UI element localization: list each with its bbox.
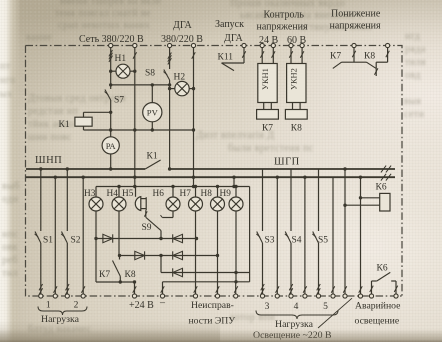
svg-text:–: – [159,298,166,309]
svg-text:S9: S9 [142,223,152,233]
svg-text:Н6: Н6 [153,189,165,199]
svg-text:Н3: Н3 [84,189,96,199]
svg-text:Н9: Н9 [220,189,232,199]
svg-text:Н1: Н1 [115,54,127,64]
svg-text:К8: К8 [291,124,302,134]
svg-text:К7: К7 [330,52,341,62]
svg-text:S4: S4 [292,236,302,246]
svg-text:Аварийное: Аварийное [355,301,400,312]
svg-text:1: 1 [46,301,51,311]
svg-text:S7: S7 [114,96,124,106]
svg-text:УКН2: УКН2 [290,68,299,90]
svg-text:ШНП: ШНП [35,155,62,166]
svg-text:ДГА: ДГА [173,20,193,31]
svg-text:2: 2 [74,301,79,311]
svg-text:Неисправ-: Неисправ- [191,300,234,311]
svg-text:Н2: Н2 [174,73,186,83]
svg-text:К6: К6 [377,264,388,274]
svg-text:напряжения: напряжения [257,22,309,33]
svg-text:+24 В: +24 В [129,300,154,311]
svg-text:К1: К1 [59,120,70,130]
svg-text:Н4: Н4 [107,189,119,199]
svg-text:3: 3 [265,302,270,312]
svg-text:Н5: Н5 [122,189,134,199]
svg-text:Контроль: Контроль [264,10,305,21]
svg-text:К8: К8 [125,270,136,280]
svg-text:Запуск: Запуск [215,19,244,30]
svg-text:S2: S2 [71,236,81,246]
svg-text:4: 4 [294,302,299,312]
svg-text:освещение: освещение [355,316,400,327]
svg-text:К1: К1 [147,152,158,162]
svg-text:Н8: Н8 [201,189,213,199]
svg-text:К6: К6 [376,183,387,193]
svg-text:S1: S1 [43,236,53,246]
svg-text:РА: РА [106,141,117,151]
svg-text:Н7: Н7 [180,189,192,199]
svg-text:напряжения: напряжения [330,21,382,32]
svg-text:S8: S8 [145,69,155,79]
svg-text:К11: К11 [218,53,234,63]
svg-text:К7: К7 [262,124,273,134]
svg-text:PV: PV [147,108,159,118]
svg-text:К8: К8 [364,52,375,62]
svg-text:УКН1: УКН1 [261,68,270,90]
svg-text:S3: S3 [265,236,275,246]
svg-text:К7: К7 [99,270,110,280]
svg-text:Понижение: Понижение [331,9,381,20]
svg-text:380/220 В: 380/220 В [161,34,203,45]
svg-text:S5: S5 [318,236,328,246]
svg-text:60 В: 60 В [287,35,307,46]
svg-text:Сеть 380/220 В: Сеть 380/220 В [79,34,144,45]
svg-text:5: 5 [323,302,328,312]
svg-text:ДГА: ДГА [224,33,244,44]
svg-text:24 В: 24 В [259,35,279,46]
svg-text:ШГП: ШГП [274,157,300,168]
